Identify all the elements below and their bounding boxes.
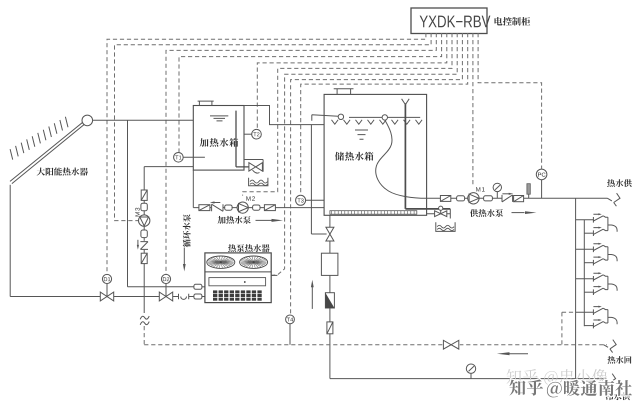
heat pump control stub [271,274,277,276]
valve on return line [442,340,459,350]
wire heating tank to storage tank [244,106,324,125]
control line to sensor PC [478,33,541,169]
wire hot water supply to right edge [576,197,608,199]
solar collector header circle [82,115,93,126]
flexible connector on supply line [440,196,450,202]
drain pan right [436,222,455,231]
flow arrow on return (pointing left) [510,353,529,355]
label heating water pump [218,216,251,224]
heating tank water level marks [210,116,228,121]
overflow loop on heating tank [244,160,263,172]
sensor T4 [289,324,291,345]
heat pump louver grid [213,290,262,300]
control line to sensor T2 [257,33,447,129]
sensor T2 [244,133,252,135]
union fitting above pump M3 [141,203,147,211]
pump M3 [139,215,150,226]
dashed hot water return line [144,344,607,346]
wire collector return pipe (left drop) [9,185,11,297]
label circulation pump (vertical) [183,214,191,247]
tap branch group 4 [576,306,618,329]
wire M3 suction from heating tank [144,166,193,168]
tap branch group 3 [576,272,618,295]
heating tank body [193,106,244,171]
dashed return connection to tap riser [562,312,576,345]
control line to sensor T1 [179,33,442,152]
float level sensor 2 with suction hose [382,115,387,120]
flow element on cold feed [327,322,333,334]
check valve on M2 line [211,204,223,211]
flexible connector right on supply line [514,196,524,202]
storage tank top flange [334,89,354,95]
pressure gauge on cold main [470,373,472,378]
solar collector panel [10,119,88,183]
label dian-kong-zhi-gui (electric control cabinet) [495,17,531,26]
heating tank top flange [198,101,214,105]
label heat pump water heater [228,244,270,252]
flow arrow up beside cold feed [311,287,313,309]
label cold water supply [606,392,630,400]
control line to heat pump [271,33,457,275]
pipe continuation arrow hot water supply [608,193,621,206]
wire tap sub-riser [583,220,585,326]
water surface V marks [332,120,423,124]
control cabinet YXDK-RBV box U1 [411,8,490,34]
dip tube / overflow pipe [405,103,450,209]
flexible connector right on M2 line [264,205,275,211]
heat pump fan deck divider [205,271,271,273]
strainer filter on cold feed [325,293,334,308]
watermark ghost [507,369,608,385]
dashed riser to return line [143,326,145,345]
label M1 [476,187,485,191]
shut-off valve on cold feed [326,227,334,234]
union fitting at heat pump lower port [194,294,202,299]
flow meter on M3 column [141,190,147,200]
control line to pump M2 [243,33,452,196]
pipe break symbol on riser [140,314,149,326]
heat pump front slot [209,278,266,286]
heat pump fan left [207,256,235,268]
pump M1 [468,193,479,204]
wire supply pump line [427,197,576,199]
heating tank internal standpipe [236,111,249,167]
control line to pump M3 [115,33,432,221]
drain valve on heating tank [249,163,256,171]
wire bottom loop pipe to valve D1 [10,296,100,298]
solar collector hatch marks [10,117,68,160]
wire heat pump upper line [128,286,194,288]
pump M2 [237,202,248,213]
label hot water return [608,356,632,364]
check valve on supply line [502,194,514,202]
heat pump water heater unit [205,253,271,303]
union fitting right of pump M2 [253,205,260,210]
pipe continuation arrow cold water [603,374,616,387]
control line to valve D1 [107,33,426,274]
wire cold water bottom main [330,378,607,380]
wire M2 pump line [193,207,324,209]
wire pipe D1 to D2 [114,296,160,298]
wire heating tank bottom outlet [192,170,194,208]
drain pan with heater below heating tank [249,178,268,186]
check valve on M3 column [139,241,149,250]
label heating tank [200,138,239,147]
flow arrow down beside M3 column [183,248,185,265]
tap branch group 2 [576,243,618,266]
flow element below check on M3 column [141,253,147,263]
control line to sensor T3 [301,33,468,195]
wire hot water main riser [575,198,577,378]
label solar water heater [37,168,88,176]
flow arrow right of supply label [512,212,525,214]
union fitting right of pump M1 [484,196,493,201]
label hot water supply [607,179,632,187]
control line to pump M1 [472,33,474,187]
union fitting below pump M3 [141,230,147,238]
sensor T1 [183,156,205,158]
motorized valve D2 [159,274,172,301]
thermometer on supply line [528,194,530,198]
wire drop to storage tank inlet [311,125,326,234]
pressure gauge on supply line [496,192,498,199]
sensor T3 [306,199,325,201]
motorized valve D1 [100,274,113,301]
label storage tank [335,152,373,161]
union fitting at heat pump upper port [194,284,202,289]
flow arrow right of label [256,219,273,221]
pipe continuation arrow hot water return [604,340,617,353]
wire branch down to heat pump upper port [127,120,129,287]
expansion vessel on cold feed [321,253,338,275]
control line to sensor T4 [291,33,463,315]
wire M3 column (heating tank to collector loop) [143,167,145,313]
storage tank water surface line [349,116,420,118]
control line to valve D2 [166,33,436,274]
sensor PC [541,180,543,199]
tap branch group 1 [576,213,618,236]
label M3 (rotated) [135,208,140,217]
perforated diffuser at tank bottom [330,211,417,215]
storage tank body [324,94,427,215]
wire collector supply pipe to heating tank [93,119,194,121]
water level symbol [355,130,368,139]
heat pump fan right [240,256,268,268]
wire cold feed into storage tank [329,215,331,227]
label M2 [246,196,255,200]
flexible connector on M2 line [199,205,210,211]
watermark zhihu nuantongnanshe [510,379,632,397]
wire pipe D2 to flexible hose [173,296,179,298]
union fitting left of pump M2 [225,205,232,210]
label supply hot water pump [470,209,503,217]
union fitting left of pump M1 [457,196,465,201]
float level sensor 1 [312,115,339,121]
flexible hose connector [179,294,189,300]
tank drain valve to pan [427,213,451,215]
